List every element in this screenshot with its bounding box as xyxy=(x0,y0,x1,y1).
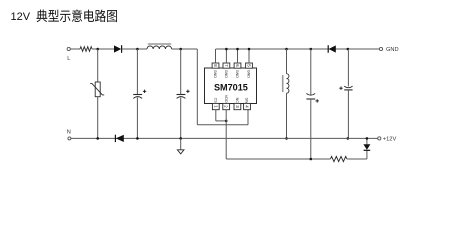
node C4 bottom xyxy=(347,137,350,140)
pin 5 box top xyxy=(246,49,253,68)
varistor RV1 xyxy=(90,82,104,97)
wire L to R1 xyxy=(70,48,80,50)
capacitor C2 xyxy=(177,49,190,138)
node pin6 bus xyxy=(236,48,239,51)
wire pin1 xyxy=(216,110,226,121)
diode D1 xyxy=(114,45,122,53)
terminal GND xyxy=(379,47,398,53)
node C2 bottom ground xyxy=(179,137,182,140)
node C2 top xyxy=(179,48,182,51)
svg-text:SW: SW xyxy=(245,98,249,104)
node L2 top xyxy=(285,48,288,51)
wire VCC to drain pin xyxy=(197,49,248,125)
diode D3 xyxy=(363,138,370,150)
diode D4 xyxy=(115,135,123,142)
pin 6 label GND xyxy=(235,70,239,79)
pin 1 label CS xyxy=(213,98,217,104)
capacitor C1 xyxy=(133,49,146,138)
wire pin2 FB xyxy=(226,110,330,159)
inductor L2 xyxy=(283,49,289,138)
wire R1 to D1 xyxy=(92,48,114,50)
node L2 bottom xyxy=(285,137,288,140)
svg-text:GND: GND xyxy=(247,70,251,79)
terminal L xyxy=(67,47,70,61)
wire N rail xyxy=(71,137,378,139)
terminal N xyxy=(67,129,71,140)
resistor R1 xyxy=(80,47,92,52)
wire varistor top xyxy=(97,49,99,82)
pin 1 box bottom xyxy=(212,103,219,109)
svg-text:+12V: +12V xyxy=(383,137,397,143)
wire R2 to D3 xyxy=(347,150,367,159)
pin 3 label NC xyxy=(235,98,239,104)
node C1 bottom xyxy=(136,137,139,140)
svg-text:NC: NC xyxy=(235,98,239,104)
node D3 rail xyxy=(366,137,369,140)
pin 2 box bottom xyxy=(223,103,230,109)
diode D2 xyxy=(328,45,336,53)
pin 6 box top xyxy=(234,49,241,68)
node varistor-top xyxy=(96,48,99,51)
wire GND bus xyxy=(216,48,380,50)
pin 5 label GND xyxy=(247,70,251,79)
svg-text:SM7015: SM7015 xyxy=(214,82,248,92)
svg-text:L: L xyxy=(67,56,70,62)
svg-text:N: N xyxy=(67,129,71,135)
inductor L1 xyxy=(147,44,172,49)
node C3 top xyxy=(310,48,313,51)
svg-text:GND: GND xyxy=(386,47,399,53)
node pin7 bus xyxy=(225,48,228,51)
pin 7 label GND xyxy=(224,70,228,79)
svg-text:GND: GND xyxy=(213,70,217,79)
wire varistor bottom xyxy=(97,97,99,139)
pin 2 label VDD xyxy=(224,95,228,103)
svg-text:VDD: VDD xyxy=(224,95,228,103)
op-amp U1 SM7015 body xyxy=(205,68,257,104)
node C3 to FB xyxy=(310,158,313,161)
svg-text:GND: GND xyxy=(224,70,228,79)
pin 8 label GND xyxy=(213,70,217,79)
node C4 top xyxy=(347,48,350,51)
node pin5 bus xyxy=(248,48,251,51)
wire D1 to L1 xyxy=(122,48,147,50)
pin 7 box top xyxy=(223,49,230,68)
capacitor C4 xyxy=(339,49,352,138)
node FB join xyxy=(225,120,228,123)
title text 12V typical schematic xyxy=(11,9,118,23)
svg-text:CS: CS xyxy=(213,98,217,104)
ground xyxy=(177,138,184,154)
node C1 top xyxy=(136,48,139,51)
pin 3 box bottom xyxy=(234,103,241,109)
svg-text:GND: GND xyxy=(235,70,239,79)
node varistor bottom xyxy=(96,137,99,140)
pin 4 label SW xyxy=(245,98,249,104)
resistor R2 xyxy=(330,156,347,161)
capacitor C3 xyxy=(306,49,319,159)
terminal +12V xyxy=(378,137,397,143)
wire L1 to corner xyxy=(172,48,198,50)
svg-text:12V: 12V xyxy=(11,11,31,23)
pin 8 box top xyxy=(212,49,219,68)
pin 4 box bottom xyxy=(244,103,251,109)
